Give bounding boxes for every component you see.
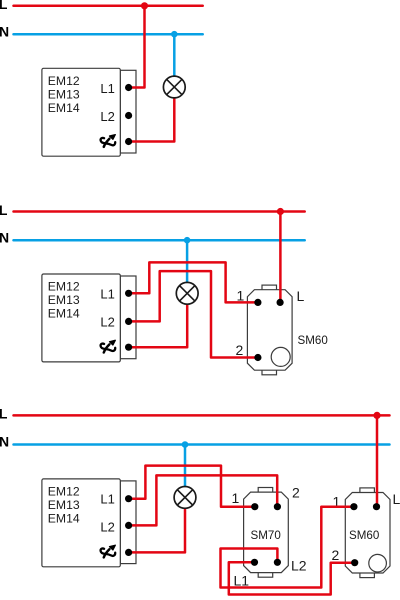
wire relay L2 to SM70 pin 2 (section 3) <box>127 475 277 525</box>
relay EM12/EM13/EM14 (section 3) <box>42 479 136 567</box>
wire N bus (section 1) <box>14 33 203 36</box>
junction on N bus (section 3) <box>182 441 189 448</box>
wire relay L2 to SM60 pin 2 (section 2) <box>127 271 258 357</box>
terminal L2 dot (section 3) <box>125 522 132 529</box>
wire lamp to relay output terminal (section 2) <box>127 304 187 347</box>
lamp E1 (section 3) <box>174 487 196 509</box>
terminal L1 dot (section 2) <box>125 290 132 297</box>
wire lamp to relay output terminal (section 3) <box>127 508 185 552</box>
wire L bus to terminal L1 (section 1) <box>127 6 145 88</box>
wire N bus to lamp (section 3) <box>184 445 187 487</box>
wire N bus (section 2) <box>14 239 305 242</box>
junction on L bus (section 2) <box>277 208 284 215</box>
terminal L1 dot (section 3) <box>125 495 132 502</box>
junction on N bus (section 1) <box>171 31 178 38</box>
wire L bus to SM60 pin L (section 3) <box>376 415 379 506</box>
SM70 pin 2 dot (section 3) <box>274 503 281 510</box>
SM60 pin 2 dot (section 3) <box>351 559 358 566</box>
SM60 pin 1 dot (section 3) <box>350 503 357 510</box>
relay output terminal dot (section 3) <box>125 549 132 556</box>
SM60 button (section 2) <box>271 347 290 366</box>
pushbutton SM60 (section 3) <box>345 488 390 578</box>
relay EM12/EM13/EM14 (section 2) <box>42 274 136 362</box>
wire SM70 pin L1 to SM60 pin 2 (section 3) <box>229 562 355 594</box>
svg-text:SM60: SM60 <box>349 529 379 542</box>
lamp E1 (section 2) <box>176 282 198 304</box>
terminal L2 dot (section 1) <box>125 112 132 119</box>
svg-text:L1: L1 <box>234 573 250 589</box>
wire relay L1 to SM70 pin 1 (section 3) <box>127 466 255 507</box>
svg-text:2: 2 <box>332 547 340 563</box>
terminal L1 dot (section 1) <box>125 84 132 91</box>
wire N bus to lamp (section 2) <box>186 240 189 282</box>
svg-text:2: 2 <box>292 485 300 501</box>
relay output terminal dot (section 2) <box>125 344 132 351</box>
wire L bus (section 2) <box>14 210 305 213</box>
wire N bus to lamp (section 1) <box>173 34 176 76</box>
svg-text:SM70: SM70 <box>251 529 281 542</box>
svg-text:2: 2 <box>236 342 244 358</box>
wire N bus (section 3) <box>14 443 390 446</box>
junction on L bus (section 1) <box>141 2 148 9</box>
svg-text:L: L <box>0 0 8 12</box>
wire lamp to relay output terminal (section 1) <box>127 98 174 142</box>
wire L bus to SM60 pin L (section 2) <box>279 212 282 303</box>
svg-text:1: 1 <box>232 490 240 506</box>
svg-text:L: L <box>0 406 8 422</box>
svg-text:SM60: SM60 <box>298 334 328 347</box>
junction on N bus (section 2) <box>184 237 191 244</box>
SM60 pin L dot (section 2) <box>277 299 284 306</box>
pushbutton SM70 (section 3) <box>244 488 289 578</box>
SM60 pin 2 dot (section 2) <box>254 354 261 361</box>
terminal L2 dot (section 2) <box>125 318 132 325</box>
SM70 pin L1 dot (section 3) <box>251 559 258 566</box>
lamp E1 (section 1) <box>163 76 185 98</box>
SM60 pin L dot (section 3) <box>373 503 380 510</box>
wire SM70 pin L2 to SM60 pin 1 (section 3) <box>221 507 354 588</box>
SM70 pin L2 dot (section 3) <box>274 559 281 566</box>
svg-text:L: L <box>297 288 305 304</box>
SM60 button (section 3) <box>369 554 387 572</box>
svg-text:1: 1 <box>237 288 245 304</box>
wire relay L1 to SM60 pin 1 (section 2) <box>127 262 258 302</box>
relay EM12/EM13/EM14 (section 1) <box>42 68 136 156</box>
relay output terminal dot (section 1) <box>125 138 132 145</box>
SM60 pin 1 dot (section 2) <box>254 299 261 306</box>
svg-text:N: N <box>0 229 9 245</box>
wire L bus (section 3) <box>14 414 390 417</box>
svg-text:L: L <box>393 491 400 507</box>
SM70 pin 1 dot (section 3) <box>251 503 258 510</box>
pushbutton SM60 (section 2) <box>247 285 292 375</box>
svg-text:L2: L2 <box>291 558 307 574</box>
wire L bus (section 1) <box>14 5 203 8</box>
svg-text:N: N <box>0 434 9 450</box>
svg-text:N: N <box>0 23 9 39</box>
junction on L bus (section 3) <box>373 412 380 419</box>
svg-text:L: L <box>0 202 8 218</box>
